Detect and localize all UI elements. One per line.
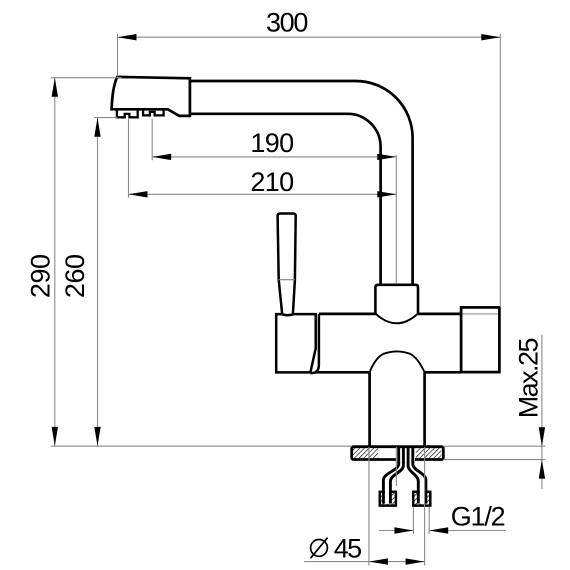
collar below pipe bbox=[375, 285, 418, 314]
collar bottom arc bbox=[375, 314, 418, 324]
dim 190 extension bbox=[151, 119, 153, 161]
left hose connector bbox=[380, 492, 396, 506]
fitting inner thin line bbox=[463, 313, 499, 315]
dim G12 right arrow bbox=[429, 527, 448, 533]
dim 210 right arrow bbox=[377, 191, 396, 197]
dim d45 left arrow bbox=[369, 558, 388, 564]
dim Max25 lower arrow bbox=[539, 460, 545, 479]
svg-text:45: 45 bbox=[334, 533, 362, 563]
dim G12 left arrow bbox=[394, 527, 413, 533]
handle lever stick bbox=[278, 214, 296, 315]
deck bottom extension right bbox=[443, 459, 545, 461]
svg-text:260: 260 bbox=[60, 254, 90, 298]
dim 300 line bbox=[118, 36, 501, 38]
dim d45 line bbox=[304, 561, 424, 563]
body top edge left segment bbox=[319, 313, 376, 316]
axis line below deck bbox=[395, 447, 397, 486]
dim d45 right arrow bbox=[406, 558, 425, 564]
svg-text:Max.25: Max.25 bbox=[513, 338, 543, 419]
dim 300 right arrow bbox=[481, 34, 500, 40]
spout arm inner edge with bend bbox=[190, 114, 381, 285]
column left edge bbox=[368, 372, 371, 446]
svg-text:G1/2: G1/2 bbox=[451, 502, 506, 532]
dim Max25 upper arrow bbox=[539, 427, 545, 446]
handle base bbox=[276, 314, 316, 372]
deck top extension right bbox=[443, 445, 545, 447]
spout arm outer edge with bend bbox=[190, 81, 413, 285]
spout head outline bbox=[112, 77, 190, 116]
svg-text:210: 210 bbox=[250, 167, 294, 197]
deck flange outline bbox=[352, 447, 444, 460]
aerator tab 1 bbox=[117, 109, 138, 117]
body bottom edge right segment bbox=[425, 371, 462, 374]
dim G12 right shaft bbox=[429, 530, 505, 532]
dim 210 left arrow bbox=[129, 191, 148, 197]
hose bundle line 2 bbox=[402, 448, 405, 464]
flange bottom edge gap for hoses bbox=[397, 458, 415, 462]
dim 260 bottom arrow bbox=[94, 427, 100, 446]
dim 300 left arrow bbox=[118, 34, 137, 40]
dim 190 left arrow bbox=[152, 154, 171, 160]
right fitting bbox=[461, 307, 499, 372]
dim 290 top arrow bbox=[52, 78, 58, 97]
body bottom edge left segment bbox=[316, 371, 370, 374]
dim 260 top extension bbox=[94, 117, 117, 119]
dim 210 line bbox=[129, 193, 397, 195]
dim 210 extension bbox=[128, 119, 130, 198]
dim 190 line bbox=[152, 156, 396, 158]
svg-text:190: 190 bbox=[250, 128, 294, 158]
dim 260 top arrow bbox=[94, 118, 100, 137]
svg-text:300: 300 bbox=[266, 7, 309, 37]
left hose inner wall bbox=[390, 463, 403, 493]
deck flange hatched right bbox=[416, 448, 441, 458]
body left end cap line bbox=[311, 314, 319, 373]
dim d45 left extension bbox=[368, 447, 370, 566]
left hose outer wall bbox=[383, 462, 398, 492]
hose bundle line 4 bbox=[411, 448, 414, 464]
svg-text:290: 290 bbox=[25, 254, 55, 298]
dim 290 bottom arrow bbox=[52, 427, 58, 446]
column right edge bbox=[423, 372, 426, 446]
saddle curve column-body junction bbox=[370, 351, 425, 372]
dim 290 top extension bbox=[51, 77, 122, 79]
dim d45 diameter symbol bbox=[311, 540, 328, 557]
body top edge right segment bbox=[418, 313, 461, 316]
dim 260 line bbox=[97, 118, 99, 446]
right hose inner wall bbox=[408, 463, 418, 493]
dim 190 right arrow bbox=[377, 154, 396, 160]
dim 300 left extension bbox=[117, 34, 119, 77]
dim G12 left shaft bbox=[379, 530, 414, 532]
dim G12 right extension bbox=[428, 507, 430, 535]
hose bundle line 1 bbox=[397, 448, 400, 464]
right hose outer wall bbox=[413, 462, 426, 492]
deck top extension left bbox=[51, 445, 352, 447]
dim G12 left extension bbox=[412, 507, 414, 535]
dim Max25 line bbox=[541, 335, 543, 490]
hose bundle line 3 bbox=[407, 448, 410, 464]
aerator tab 2 bbox=[143, 109, 164, 115]
dim 290 line bbox=[54, 78, 56, 446]
pipe centerline bbox=[395, 155, 397, 283]
dim 300 right extension bbox=[499, 34, 501, 307]
deck flange hatched left bbox=[353, 448, 379, 458]
dim d45 right extension bbox=[424, 447, 426, 566]
right hose connector bbox=[413, 492, 430, 506]
handle stick joint line bbox=[279, 279, 295, 281]
